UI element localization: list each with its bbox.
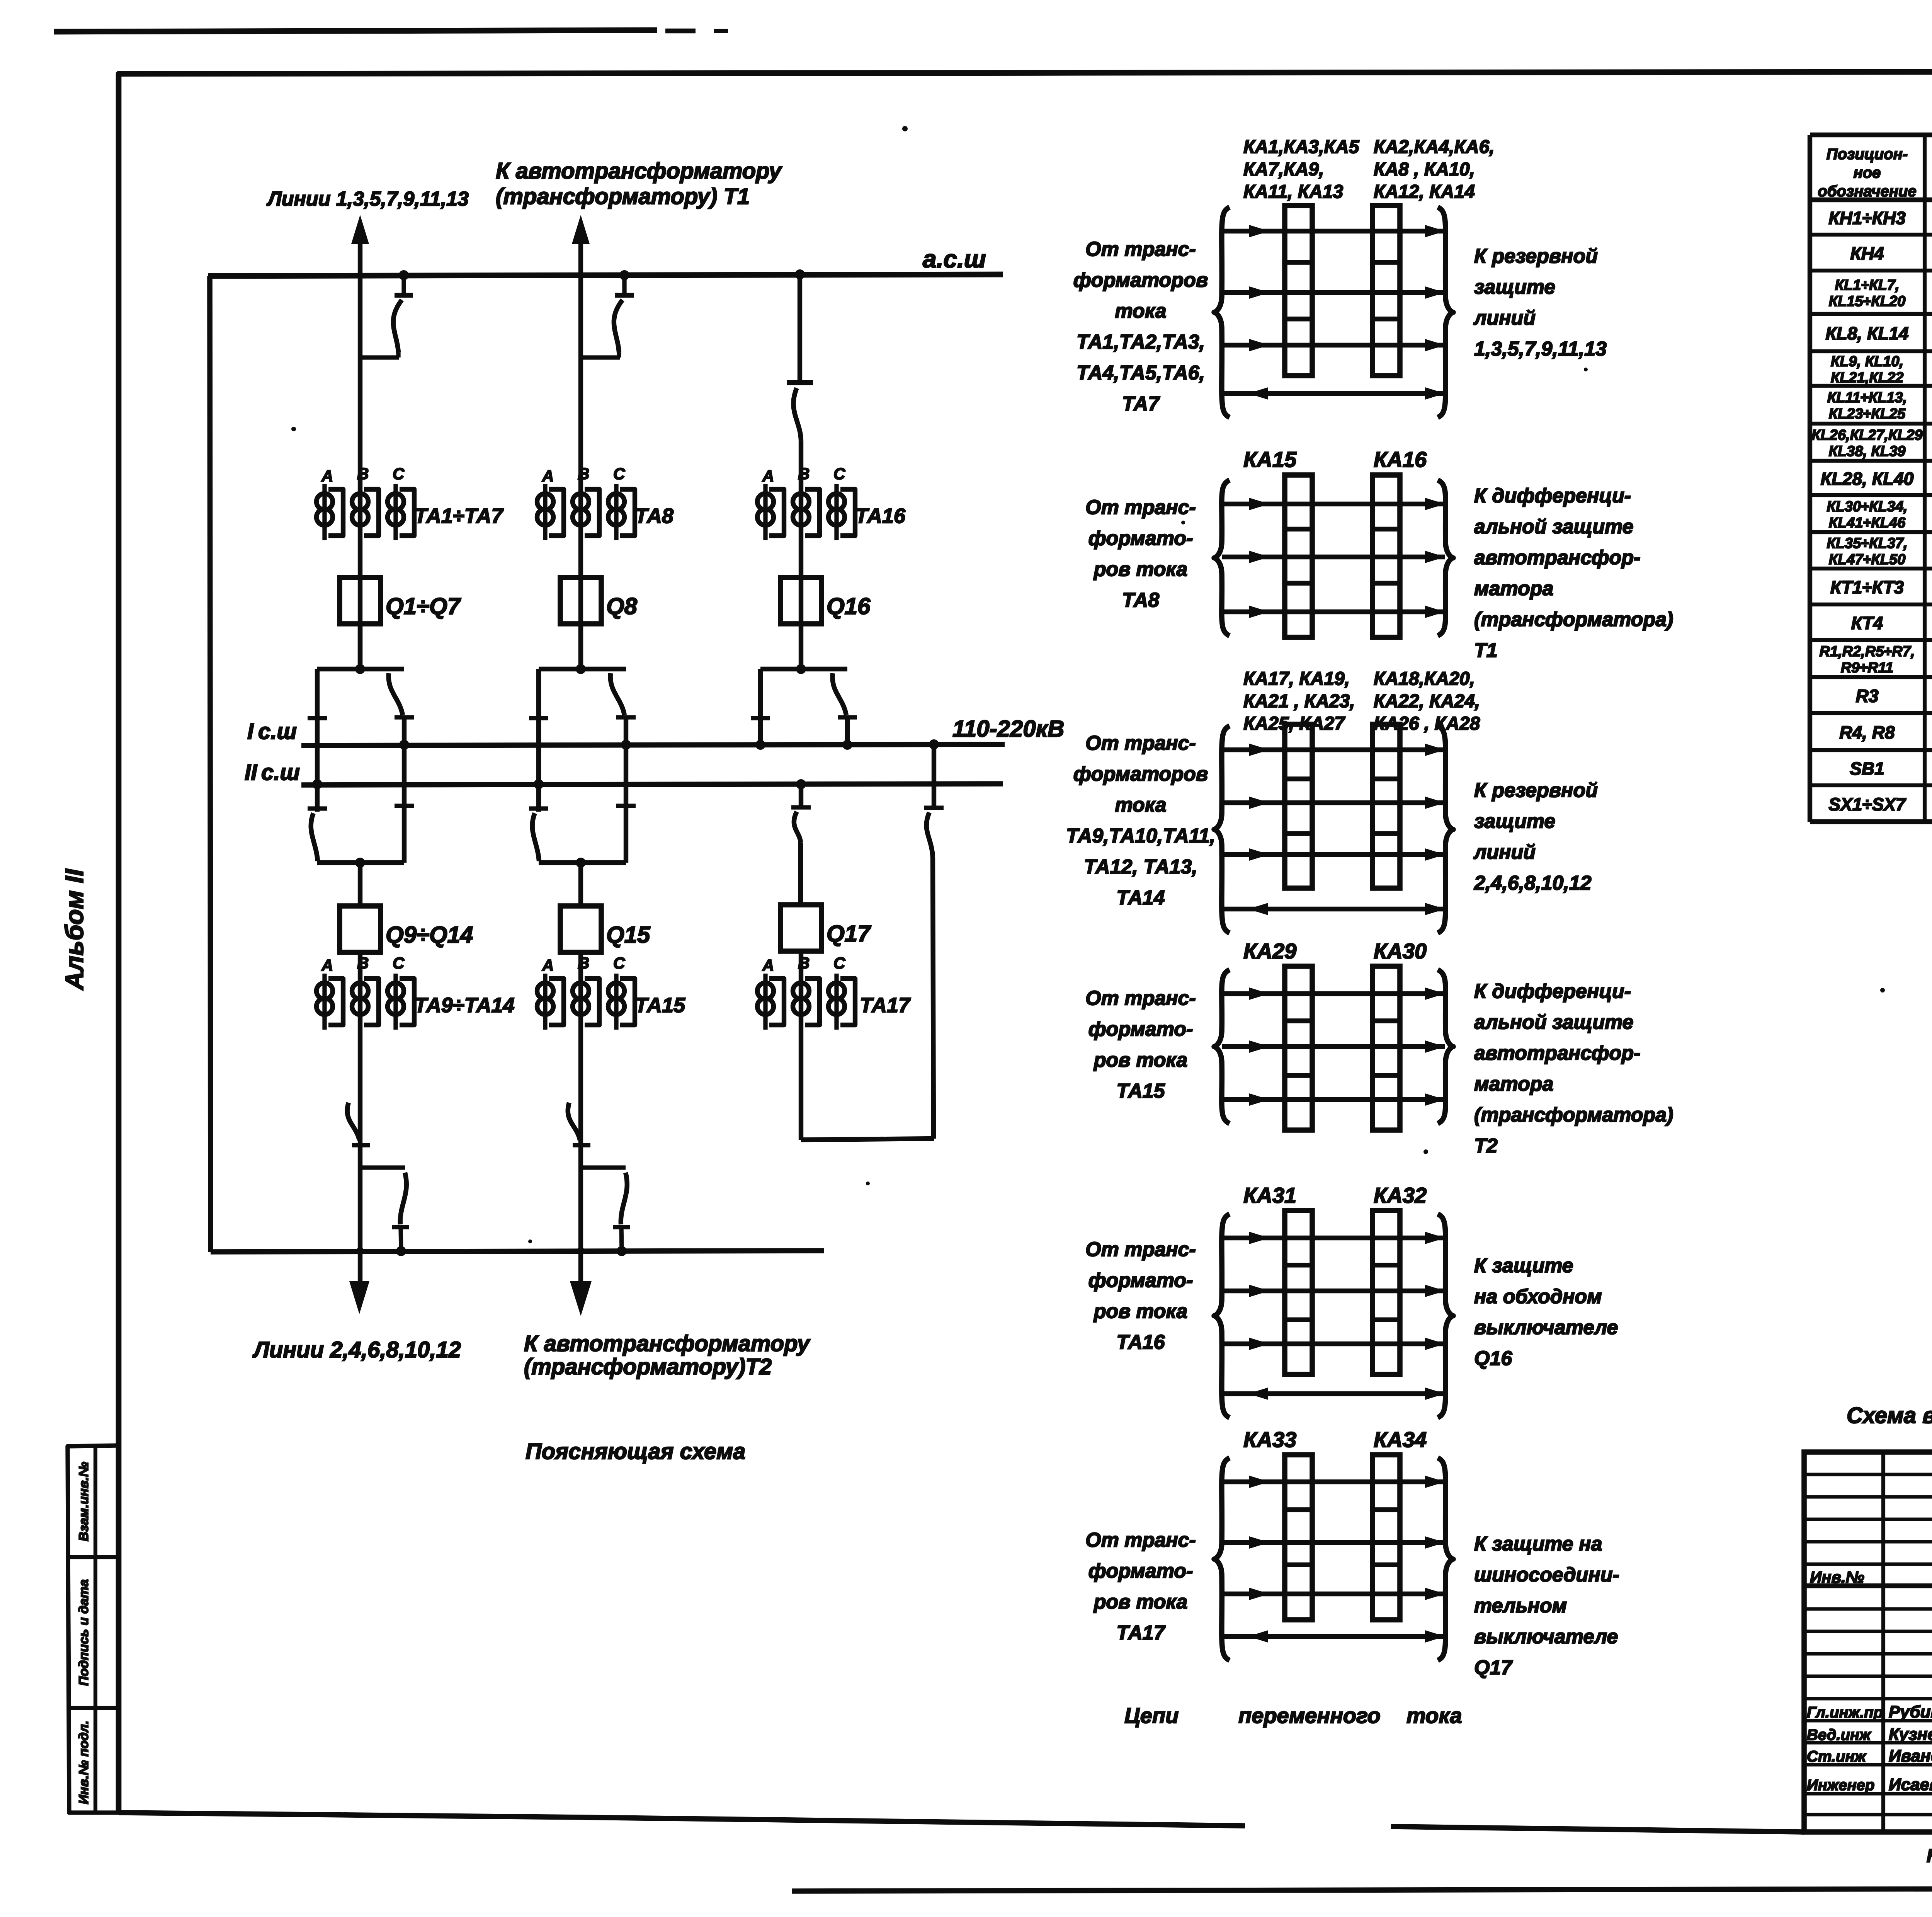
relay group G2 left brace — [1214, 480, 1230, 636]
svg-text:R1,R2,R5÷R7,: R1,R2,R5÷R7, — [1820, 644, 1915, 660]
relay coil chain G5 column B — [1372, 1210, 1400, 1374]
portal bottom wire — [317, 860, 404, 865]
svg-text:с.ш: с.ш — [261, 760, 300, 785]
relay group G3 left brace — [1214, 726, 1230, 933]
feeder 1 lower wire — [358, 952, 362, 1291]
svg-text:автотрансфор-: автотрансфор- — [1474, 546, 1640, 569]
feeder 1 wire breaker to portal — [358, 624, 362, 670]
right leg contact below bus II — [395, 804, 414, 808]
wire circuit line 3 of G2 — [1222, 609, 1445, 614]
junction left leg bus II — [312, 779, 322, 789]
relay group G6 left brace — [1214, 1458, 1230, 1660]
lower disconnector jog wire — [581, 1165, 626, 1170]
svg-text:Подпись и дата: Подпись и дата — [77, 1579, 91, 1686]
svg-text:КА32: КА32 — [1374, 1183, 1427, 1207]
svg-text:выключателе: выключателе — [1474, 1316, 1618, 1339]
svg-text:Т1: Т1 — [1474, 639, 1498, 662]
svg-text:ное: ное — [1854, 164, 1881, 181]
svg-text:Поясняющая схема: Поясняющая схема — [526, 1439, 745, 1464]
svg-text:альной защите: альной защите — [1474, 516, 1633, 538]
Q16 tap junction on top bus — [795, 269, 805, 279]
CT phase C — [393, 484, 398, 540]
svg-text:Т2: Т2 — [1474, 1135, 1498, 1157]
left leg contact below bus II — [529, 806, 548, 810]
svg-text:Q17: Q17 — [1474, 1657, 1513, 1679]
left leg blade — [311, 813, 318, 861]
Q17 right leg contact bar below bus II — [924, 805, 944, 810]
relay group G1 left brace — [1214, 207, 1230, 417]
svg-text:ров тока: ров тока — [1093, 1049, 1188, 1071]
CT phase C — [834, 484, 838, 540]
svg-text:А: А — [321, 467, 333, 485]
wire circuit line 2 of G6 — [1222, 1540, 1445, 1545]
CT phase A — [543, 484, 547, 540]
relay group G5 right brace — [1438, 1214, 1453, 1418]
svg-text:Кузнецова: Кузнецова — [1889, 1725, 1932, 1744]
lower disconnector blade — [621, 1173, 627, 1224]
disconnector stub and contact bar — [401, 275, 406, 295]
svg-text:КL38, КL39: КL38, КL39 — [1829, 443, 1906, 460]
svg-text:Q9÷Q14: Q9÷Q14 — [386, 922, 473, 948]
svg-text:КL26,КL27,КL29: КL26,КL27,КL29 — [1811, 427, 1923, 443]
relay coil chain G3 column A — [1285, 724, 1312, 888]
svg-text:Гл.инж.пр: Гл.инж.пр — [1807, 1704, 1883, 1721]
Q17 left leg junction on bus II — [796, 779, 806, 789]
svg-text:ТА17: ТА17 — [1116, 1622, 1165, 1644]
svg-text:тельном: тельном — [1474, 1595, 1567, 1617]
svg-text:ТА4,ТА5,ТА6,: ТА4,ТА5,ТА6, — [1077, 362, 1205, 384]
svg-text:КL47÷КL50: КL47÷КL50 — [1829, 552, 1906, 568]
CT phase A — [322, 484, 327, 540]
svg-text:SХ1÷SХ7: SХ1÷SХ7 — [1828, 794, 1906, 814]
wire circuit line 1 of G6 — [1222, 1479, 1445, 1484]
Q16 main wire — [799, 441, 803, 669]
svg-text:ТА15: ТА15 — [1116, 1080, 1165, 1102]
Q16 tap wire from top bus — [798, 274, 802, 382]
feeder 1 arrow down — [349, 1281, 369, 1314]
svg-text:КА25, КА27: КА25, КА27 — [1243, 713, 1345, 734]
wire circuit line 3 of G6 — [1222, 1592, 1445, 1596]
wire bus osh top — [208, 274, 1003, 276]
relay coil chain G6 column A — [1285, 1455, 1312, 1620]
svg-text:КА26 , КА28: КА26 , КА28 — [1374, 713, 1480, 734]
svg-text:Линии 1,3,5,7,9,11,13: Линии 1,3,5,7,9,11,13 — [266, 188, 469, 210]
CT phase C — [834, 974, 838, 1030]
svg-text:КА22, КА24,: КА22, КА24, — [1374, 691, 1480, 712]
relay coil chain G6 column B — [1372, 1455, 1400, 1620]
svg-text:КТ1÷КТ3: КТ1÷КТ3 — [1830, 577, 1904, 598]
svg-text:КТ4: КТ4 — [1851, 613, 1883, 633]
svg-text:КН4: КН4 — [1850, 243, 1884, 264]
svg-text:ТА15: ТА15 — [635, 994, 685, 1017]
svg-text:Q17: Q17 — [827, 921, 871, 947]
svg-text:тока: тока — [1115, 300, 1166, 322]
svg-text:R4, R8: R4, R8 — [1839, 722, 1895, 742]
svg-text:С: С — [833, 954, 845, 972]
svg-text:К защите на: К защите на — [1474, 1533, 1602, 1555]
svg-text:КА8 , КА10,: КА8 , КА10, — [1374, 159, 1475, 180]
svg-text:А: А — [542, 956, 554, 974]
svg-text:От транс-: От транс- — [1085, 1529, 1196, 1551]
svg-text:матора: матора — [1474, 1073, 1553, 1095]
svg-text:К дифференци-: К дифференци- — [1474, 980, 1631, 1003]
svg-text:Линии 2,4,6,8,10,12: Линии 2,4,6,8,10,12 — [252, 1337, 461, 1362]
svg-text:2,4,6,8,10,12: 2,4,6,8,10,12 — [1474, 872, 1592, 894]
junction on bottom bus — [617, 1246, 627, 1256]
portal bottom stem wire — [358, 863, 362, 906]
svg-text:КL11÷КL13,: КL11÷КL13, — [1827, 390, 1907, 406]
svg-text:В: В — [357, 954, 369, 972]
relay group G6 right brace — [1438, 1458, 1453, 1660]
left leg contact above bus I — [529, 716, 548, 720]
svg-text:В: В — [798, 954, 810, 972]
CT phase C — [393, 974, 398, 1030]
junction feeder 1 bottom bus — [356, 1247, 364, 1255]
disconnector jog wire — [581, 355, 620, 359]
svg-text:Q15: Q15 — [606, 922, 651, 948]
wire circuit line 1 of G5 — [1222, 1236, 1445, 1240]
CT phase A — [322, 974, 327, 1030]
CT phase A — [543, 974, 547, 1030]
wire circuit line 1 of G2 — [1222, 502, 1445, 506]
svg-text:форматоров: форматоров — [1073, 269, 1208, 291]
svg-text:КL21,КL22: КL21,КL22 — [1831, 370, 1903, 386]
title block document number row — [1804, 1583, 1932, 1588]
svg-text:ТА12, ТА13,: ТА12, ТА13, — [1084, 856, 1197, 878]
svg-text:ТА1,ТА2,ТА3,: ТА1,ТА2,ТА3, — [1077, 331, 1205, 353]
svg-text:КА12, КА14: КА12, КА14 — [1374, 182, 1475, 202]
lower contact bar and stub — [613, 1225, 630, 1229]
svg-text:(трансформатору) Т1: (трансформатору) Т1 — [496, 184, 750, 209]
svg-text:форматоров: форматоров — [1073, 763, 1208, 785]
svg-text:От транс-: От транс- — [1085, 1238, 1196, 1261]
svg-text:Вед.инж: Вед.инж — [1807, 1726, 1872, 1743]
right leg contact below bus II — [616, 804, 636, 808]
Q17 right leg junction on bus I — [929, 739, 939, 749]
wire circuit return line of G3 — [1222, 907, 1445, 911]
svg-text:выключателе: выключателе — [1474, 1626, 1618, 1648]
svg-text:С: С — [393, 465, 405, 483]
disconnector jog wire — [360, 355, 399, 359]
svg-text:КL9, КL10,: КL9, КL10, — [1831, 354, 1903, 370]
portal right leg wire — [402, 717, 406, 863]
svg-text:II: II — [245, 760, 258, 785]
svg-text:110-220кВ: 110-220кВ — [952, 716, 1064, 742]
svg-text:К защите: К защите — [1474, 1255, 1573, 1277]
svg-text:ТА16: ТА16 — [1116, 1331, 1165, 1353]
left leg contact below bus II — [308, 806, 327, 810]
svg-text:R3: R3 — [1856, 686, 1879, 706]
svg-text:С: С — [833, 465, 845, 483]
feeder 1 main wire upper — [358, 232, 362, 669]
svg-text:Позицион-: Позицион- — [1827, 146, 1908, 163]
svg-text:ТА16: ТА16 — [855, 504, 906, 528]
svg-text:ТА7: ТА7 — [1122, 393, 1160, 415]
svg-text:ТА17: ТА17 — [860, 994, 911, 1017]
svg-text:Схема выполнена на листах: Схема выполнена на листах — [1847, 1403, 1932, 1428]
svg-text:Исаева: Исаева — [1889, 1775, 1932, 1794]
svg-text:КА1,КА3,КА5: КА1,КА3,КА5 — [1243, 137, 1360, 157]
lower contact bar and stub — [392, 1225, 409, 1229]
wire left loop vertical — [210, 276, 211, 1252]
portal left leg wire — [536, 669, 541, 812]
svg-text:К резервной: К резервной — [1474, 779, 1598, 802]
svg-text:шиносоедини-: шиносоедини- — [1474, 1564, 1619, 1586]
Q17 right leg wire — [932, 744, 936, 808]
svg-text:I: I — [247, 719, 254, 744]
Q16 left leg junction on bus I — [755, 740, 765, 750]
svg-text:а.с.ш: а.с.ш — [923, 245, 986, 273]
left leg contact above bus I — [308, 716, 327, 720]
svg-text:тока: тока — [1406, 1703, 1462, 1728]
svg-text:В: В — [798, 465, 810, 483]
Q16 right leg blade — [832, 673, 846, 715]
breaker Q16 — [781, 577, 821, 624]
disconnector tap junction — [619, 270, 629, 280]
svg-text:обозначение: обозначение — [1818, 183, 1916, 200]
Q16 tap blade — [793, 388, 801, 441]
svg-text:А: А — [762, 467, 774, 485]
svg-text:КА16: КА16 — [1374, 447, 1427, 472]
svg-text:(трансформатора): (трансформатора) — [1474, 1104, 1673, 1126]
svg-text:КL1÷КL7,: КL1÷КL7, — [1835, 277, 1900, 293]
lower contact bar on feeder — [352, 1143, 370, 1147]
svg-text:КА21 , КА23,: КА21 , КА23, — [1243, 691, 1355, 712]
wire bus bottom loop — [211, 1251, 824, 1252]
svg-text:формато-: формато- — [1088, 1269, 1193, 1292]
CT phase B — [352, 983, 368, 999]
Q17 lower wire — [799, 951, 803, 1140]
svg-text:защите: защите — [1474, 810, 1555, 833]
portal bottom wire — [539, 860, 626, 865]
svg-text:(трансформатора): (трансформатора) — [1474, 608, 1673, 631]
junction right leg bus I — [621, 740, 631, 750]
svg-text:(трансформатору)Т2: (трансформатору)Т2 — [524, 1354, 772, 1379]
feeder 2 wire breaker to portal — [578, 624, 583, 670]
svg-text:Инв.№ подл.: Инв.№ подл. — [77, 1721, 91, 1805]
svg-text:КА30: КА30 — [1374, 939, 1427, 963]
wire circuit line 2 of G3 — [1222, 800, 1445, 805]
table grid — [1810, 133, 1932, 137]
feeder 2 outgoing arrow up — [572, 215, 590, 244]
relay coil chain G2 column A — [1285, 475, 1312, 637]
wire circuit line 3 of G3 — [1222, 852, 1445, 857]
relay coil chain G1 column B — [1372, 206, 1400, 376]
svg-text:формато-: формато- — [1088, 1018, 1193, 1040]
wire circuit line 1 of G3 — [1222, 747, 1445, 752]
svg-text:Взам.инв.№: Взам.инв.№ — [77, 1462, 91, 1541]
svg-text:Q8: Q8 — [606, 593, 638, 619]
right leg contact above bus I — [616, 715, 636, 719]
svg-text:КН1÷КН3: КН1÷КН3 — [1828, 208, 1906, 228]
disconnector tap junction — [399, 270, 409, 280]
disconnector blade — [614, 300, 622, 352]
svg-text:К дифференци-: К дифференци- — [1474, 485, 1631, 507]
relay group G5 left brace — [1214, 1214, 1230, 1418]
lower switch blade in feeder — [347, 1103, 359, 1140]
Q16 tap contact bar — [787, 380, 813, 385]
portal left leg wire — [315, 669, 320, 812]
lower disconnector blade — [400, 1173, 406, 1224]
svg-text:КА17, КА19,: КА17, КА19, — [1243, 669, 1350, 689]
relay group G1 right brace — [1438, 207, 1453, 417]
svg-text:А: А — [542, 467, 554, 485]
lower contact bar on feeder — [573, 1143, 590, 1147]
svg-text:Рубинчик: Рубинчик — [1889, 1702, 1932, 1721]
svg-text:А: А — [321, 956, 333, 974]
svg-text:КА7,КА9,: КА7,КА9, — [1243, 159, 1324, 180]
svg-text:линий: линий — [1473, 841, 1536, 863]
portal right leg blade — [611, 673, 624, 715]
svg-text:защите: защите — [1474, 276, 1555, 298]
wire circuit line 2 of G5 — [1222, 1289, 1445, 1293]
feeder 2 main wire upper — [578, 232, 583, 669]
wire circuit line 1 of G4 — [1222, 991, 1445, 996]
svg-text:R9÷R11: R9÷R11 — [1841, 660, 1893, 676]
relay coil chain G5 column A — [1285, 1210, 1312, 1374]
svg-text:Цепи: Цепи — [1124, 1703, 1179, 1728]
svg-text:Q1÷Q7: Q1÷Q7 — [386, 593, 461, 619]
svg-text:КА29: КА29 — [1243, 939, 1296, 963]
svg-text:От транс-: От транс- — [1085, 732, 1196, 754]
wire circuit line 2 of G1 — [1222, 290, 1445, 295]
breaker Q1÷Q7 — [340, 577, 381, 624]
Q16 portal left leg wire — [758, 669, 763, 745]
title block outer frame — [1804, 1452, 1932, 1832]
relay coil chain G3 column B — [1372, 724, 1400, 888]
portal right leg wire — [624, 717, 628, 863]
svg-text:А: А — [762, 956, 774, 974]
svg-text:на обходном: на обходном — [1474, 1285, 1602, 1308]
wire bus II — [301, 784, 1003, 785]
svg-text:КL23÷КL25: КL23÷КL25 — [1829, 406, 1906, 422]
left leg blade — [532, 813, 539, 861]
svg-text:С: С — [613, 465, 625, 483]
wire bus I — [301, 744, 1005, 746]
svg-text:формато-: формато- — [1088, 527, 1193, 550]
svg-text:Q16: Q16 — [1474, 1347, 1512, 1370]
CT phase B — [793, 494, 809, 510]
Q17 left leg contact bar below bus II — [799, 784, 803, 807]
svg-text:ров тока: ров тока — [1093, 558, 1188, 581]
Q16 right leg wire to bus I — [845, 717, 850, 745]
outer bottom border line — [792, 1888, 1932, 1891]
svg-text:КL30÷КL34,: КL30÷КL34, — [1827, 499, 1907, 515]
wire circuit line 3 of G4 — [1222, 1097, 1445, 1102]
svg-text:КL35÷КL37,: КL35÷КL37, — [1827, 535, 1907, 552]
stamp strip frame — [68, 1445, 119, 1813]
svg-text:ТА8: ТА8 — [1122, 589, 1159, 611]
svg-text:ТА8: ТА8 — [635, 504, 673, 528]
svg-text:автотрансфор-: автотрансфор- — [1474, 1042, 1640, 1064]
right leg contact above bus I — [395, 715, 414, 719]
relay coil chain G2 column B — [1372, 475, 1400, 637]
junction left leg bus II — [534, 779, 544, 789]
svg-text:формато-: формато- — [1088, 1560, 1193, 1582]
wire circuit line 2 of G4 — [1222, 1044, 1445, 1049]
svg-text:КА18,КА20,: КА18,КА20, — [1374, 669, 1475, 689]
wire circuit return line of G6 — [1222, 1634, 1445, 1639]
CT phase B — [573, 494, 589, 510]
lower switch blade in feeder — [568, 1103, 580, 1140]
stamp strip divider 2 — [68, 1706, 119, 1710]
portal bottom stem wire — [578, 863, 583, 906]
svg-text:КА34: КА34 — [1374, 1427, 1427, 1452]
svg-text:ТА9,ТА10,ТА11,: ТА9,ТА10,ТА11, — [1066, 825, 1215, 847]
relay group G2 right brace — [1438, 480, 1453, 636]
relay coil chain G1 column A — [1285, 206, 1312, 376]
svg-text:1,3,5,7,9,11,13: 1,3,5,7,9,11,13 — [1474, 338, 1607, 360]
svg-text:От транс-: От транс- — [1085, 987, 1196, 1010]
breaker Q15 — [560, 906, 601, 952]
breaker Q9÷Q14 — [340, 906, 381, 952]
svg-text:матора: матора — [1474, 577, 1553, 600]
svg-text:В: В — [578, 465, 589, 483]
junction on bottom bus — [396, 1246, 406, 1256]
scan specks — [902, 126, 908, 131]
svg-text:альной защите: альной защите — [1474, 1011, 1633, 1033]
svg-text:Q16: Q16 — [827, 593, 871, 619]
CT phase A — [763, 974, 767, 1030]
wire circuit line 3 of G1 — [1222, 343, 1445, 347]
CT phase B — [352, 494, 368, 510]
portal top wire — [317, 667, 404, 671]
wire circuit return line of G5 — [1222, 1391, 1445, 1396]
svg-text:Копировала : Андреева: Копировала : Андреева — [1927, 1846, 1932, 1866]
junction feeder 2 bottom bus — [577, 1247, 585, 1255]
svg-text:ТА9÷ТА14: ТА9÷ТА14 — [414, 994, 515, 1017]
svg-text:Ст.инж: Ст.инж — [1807, 1748, 1867, 1765]
portal right leg blade — [389, 673, 403, 715]
svg-text:В: В — [357, 465, 369, 483]
Q17 left wire to breaker — [798, 843, 803, 905]
svg-text:ров тока: ров тока — [1093, 1591, 1188, 1613]
CT phase B — [573, 983, 589, 999]
svg-text:тока: тока — [1115, 794, 1166, 816]
svg-text:КL41÷КL46: КL41÷КL46 — [1829, 515, 1906, 531]
svg-text:КL8, КL14: КL8, КL14 — [1825, 323, 1908, 344]
Q16 portal top wire — [760, 667, 847, 671]
Q17 right leg lower wire — [933, 858, 934, 1139]
wire circuit return line of G1 — [1222, 391, 1445, 396]
svg-text:КА11, КА13: КА11, КА13 — [1243, 182, 1344, 202]
svg-text:К автотрансформатору: К автотрансформатору — [496, 158, 782, 184]
wire circuit line 1 of G1 — [1222, 229, 1445, 233]
svg-text:В: В — [578, 954, 589, 972]
relay group G4 right brace — [1438, 970, 1453, 1124]
disconnector blade — [393, 300, 402, 352]
relay coil chain G4 column A — [1285, 966, 1312, 1130]
svg-text:SВ1: SВ1 — [1850, 759, 1884, 779]
svg-text:переменного: переменного — [1238, 1703, 1381, 1728]
svg-text:КА33: КА33 — [1243, 1427, 1296, 1452]
svg-text:ТА14: ТА14 — [1116, 887, 1165, 909]
Q16 right leg junction on bus I — [842, 740, 852, 750]
Q17 bottom wire — [801, 1139, 934, 1140]
portal top wire — [539, 667, 626, 671]
wire circuit line 2 of G2 — [1222, 555, 1445, 559]
wire circuit line 3 of G5 — [1222, 1342, 1445, 1346]
feeder 1 outgoing arrow up — [351, 215, 369, 244]
CT phase C — [614, 484, 618, 540]
feeder 2 lower wire — [578, 952, 583, 1293]
feeder 2 arrow down — [570, 1281, 592, 1316]
svg-text:КА2,КА4,КА6,: КА2,КА4,КА6, — [1374, 137, 1495, 157]
svg-text:с.ш: с.ш — [258, 719, 297, 744]
svg-text:К резервной: К резервной — [1474, 245, 1598, 267]
svg-text:Иванова: Иванова — [1889, 1747, 1932, 1765]
svg-text:Инженер: Инженер — [1807, 1777, 1874, 1794]
